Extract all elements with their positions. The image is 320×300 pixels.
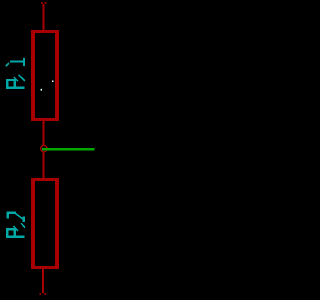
pin 1 open-end marker (top, clipped circle arcs): [41, 2, 46, 4]
wire (green net going right): [42, 148, 95, 151]
glyph R: [6, 86, 24, 88]
wire (node down to top pin of R2): [43, 152, 45, 180]
resistor R1 (body rectangle): [31, 30, 59, 121]
wire (top pin of R1): [43, 4, 45, 31]
pin 2 open-end marker (bottom circle arcs): [39, 293, 46, 295]
wire (bottom pin of R1 down to node): [43, 121, 45, 146]
white artifact dot 1: [52, 81, 54, 83]
wire (bottom pin of R2): [42, 269, 44, 293]
resistor R2 (body rectangle): [31, 178, 59, 269]
glyph 2: [7, 211, 16, 213]
label R1: [6, 58, 25, 88]
label R2: [6, 213, 25, 237]
node circle (pin junction): [41, 146, 47, 152]
glyph R: [6, 235, 24, 237]
white artifact dot 2: [41, 89, 42, 91]
glyph 1: [10, 60, 24, 62]
